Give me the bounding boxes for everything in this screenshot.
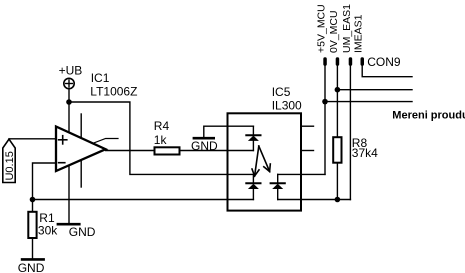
- svg-text:GND: GND: [191, 139, 218, 153]
- wire right photodiode cathode to +5V vertical: [278, 173, 325, 175]
- connector CON9 pin 4: [361, 57, 365, 66]
- svg-text:IC5: IC5: [272, 85, 291, 99]
- connector CON9 pin 1: [323, 57, 327, 66]
- resistor R8: [333, 136, 378, 163]
- wire +UB branch to IC5 pin3: [69, 102, 228, 174]
- svg-text:UM_EAS1: UM_EAS1: [341, 4, 353, 53]
- light arrow 1: [252, 146, 259, 176]
- svg-text:GND: GND: [18, 261, 45, 273]
- connector CON9 pin 3: [349, 57, 353, 66]
- svg-text:+5V_MCU: +5V_MCU: [316, 4, 328, 53]
- photodiode right inside IC5: [271, 174, 285, 199]
- LED inside IC5: [246, 126, 260, 150]
- photodiode left inside IC5: [228, 174, 261, 199]
- op-amp U1 IC1: [56, 127, 118, 172]
- pin stub IC5 right nc1: [301, 125, 314, 127]
- wire 0V_MCU vertical to R8 top: [336, 66, 338, 138]
- wire R8 bottom lead: [336, 163, 338, 200]
- svg-text:IL300: IL300: [272, 98, 302, 112]
- svg-text:IMEAS1: IMEAS1: [353, 14, 365, 53]
- wire U0.15 to op-amp + input: [9, 138, 56, 140]
- node junction R8 bottom: [335, 197, 341, 203]
- wire UMEAS1 vertical: [349, 66, 351, 200]
- svg-text:30k: 30k: [38, 224, 58, 238]
- wire +5V_MCU vertical: [324, 66, 326, 175]
- wire right photodiode anode rail to UMEAS vertical: [278, 199, 351, 201]
- wire R4 to IC5 pin2 / LED bottom: [180, 150, 254, 152]
- light arrow 2: [259, 146, 271, 172]
- wire IC5 pin1 to GND bend: [204, 126, 254, 137]
- resistor R4: [154, 119, 180, 155]
- wire - input to feedback node: [33, 163, 57, 200]
- connector CON9 pin 2: [336, 57, 340, 66]
- node junction feedback: [30, 197, 36, 203]
- svg-text:CON9: CON9: [367, 55, 401, 69]
- wire op-amp second power pin: [80, 114, 82, 187]
- svg-text:LT1006Z: LT1006Z: [90, 85, 137, 99]
- resistor R1: [28, 211, 58, 238]
- wire V+ pin through op-amp to GND: [68, 102, 70, 224]
- wire R1 bottom lead: [32, 238, 34, 259]
- pin stub IC5 right nc2: [301, 150, 314, 152]
- wire +UB stem to node: [68, 89, 70, 102]
- power symbol +UB: [59, 64, 83, 89]
- wire op-amp output to R4: [106, 150, 155, 152]
- node junction 0V branch: [335, 87, 341, 93]
- svg-text:+UB: +UB: [59, 64, 83, 78]
- ground (op-amp V-): [58, 224, 96, 239]
- svg-text:0V_MCU: 0V_MCU: [328, 10, 340, 53]
- svg-text:U0.15: U0.15: [4, 151, 16, 180]
- wire R1 top lead: [32, 200, 34, 212]
- optocoupler IC5 IL300 box: [228, 113, 302, 210]
- ground (R1): [18, 259, 45, 273]
- svg-text:Mereni proudu: Mereni proudu: [392, 110, 465, 122]
- wire +5V branch right: [325, 101, 412, 103]
- wire 0V branch right: [337, 89, 412, 91]
- node junction at +UB branch: [66, 99, 72, 105]
- ground (near IC5): [191, 138, 218, 153]
- net flag U0.15: [3, 139, 16, 182]
- wire IMEAS1 bend right: [362, 66, 412, 77]
- svg-text:R4: R4: [154, 119, 170, 133]
- wire feedback rail to IC5 left photodiode anode: [33, 199, 254, 201]
- svg-text:1k: 1k: [154, 133, 168, 147]
- svg-text:IC1: IC1: [91, 71, 110, 85]
- node junction +5V branch: [322, 99, 328, 105]
- svg-text:GND: GND: [69, 225, 96, 239]
- svg-text:37k4: 37k4: [352, 146, 378, 160]
